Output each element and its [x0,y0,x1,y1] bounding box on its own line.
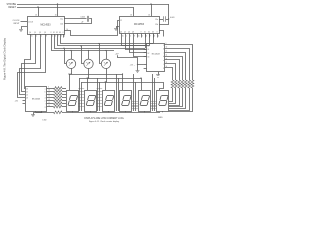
wire BCD U1 to U3 [18,38,46,98]
wire BCD U2 to U4 [126,38,147,50]
wire DS rail Q2 (y45.9) [58,38,150,46]
wire DS4 backplane stub [125,111,127,112]
display DS3 box [103,91,115,112]
wire segment bus tick [150,101,156,103]
svg-text:Q1: Q1 [124,32,126,34]
ground below U4 [156,74,160,76]
pin U2 bottom 9 [133,34,135,38]
wire RESET to U1 pin 13 [38,7,40,16]
pin U2 bottom 11 [137,34,139,38]
wire gap vertical [118,78,120,111]
wire segment bus tick [150,106,156,108]
svg-text:13: 13 [130,14,132,16]
wire collector Q1 [71,51,73,60]
svg-text:14: 14 [67,29,69,31]
svg-text:Q2: Q2 [128,32,130,34]
svg-text:Q2: Q2 [39,32,41,34]
svg-text:13: 13 [48,99,50,101]
ground at U2 pin 11 [114,28,118,30]
wire segment bus tick [78,103,84,105]
wire digit common drop [141,78,143,90]
wire DS5 backplane stub [144,111,146,112]
wire segment bus tick [132,103,138,105]
wire segment bus tick [132,108,138,110]
pin U2 bottom 4 [157,34,159,38]
wire base drop Q1 [65,48,67,63]
svg-text:D2: D2 [148,32,150,34]
wire collector Q2 [88,51,90,60]
wire gap vertical [116,74,118,111]
wire BCD U1 to U3 [22,38,36,92]
svg-text:DISPLAYS ARE LOW CURRENT LCDs: DISPLAYS ARE LOW CURRENT LCDs [84,117,124,120]
svg-text:V: V [141,32,142,34]
display DS4 box [120,91,132,112]
svg-text:D3: D3 [59,32,61,34]
resistor R5 [47,100,54,102]
resistor R3 [47,94,54,96]
wire DS1 backplane stub [72,111,74,112]
wire DS rail Q3 (y43.5) [61,38,154,44]
svg-text:D3: D3 [148,56,150,58]
wire base drop Q2 [82,46,84,64]
resistor R2 [47,91,54,93]
counter U2 MC14553 [120,17,160,34]
pin U1 bottom 4 [63,34,65,38]
svg-text:Q0: Q0 [120,32,122,34]
wire BCD U2 to U4 [122,38,147,46]
pin U1 bottom 15 [30,34,32,38]
capacitor C2 wiring [159,19,163,21]
wire U2 pin 11 to ground [117,27,120,29]
wire gap vertical [81,82,83,111]
U3 left pin stubs [23,100,26,102]
pin U2 bottom 2 [129,34,131,38]
pin U1 bottom 2 [40,34,42,38]
resistor R10 [188,80,191,88]
svg-text:D3: D3 [152,32,154,34]
wire segment bus tick [97,100,103,102]
capacitor C2 plates [163,16,165,21]
wire segment bus tick [78,106,84,108]
pin U2 bottom 1 [125,34,127,38]
resistor R4 [47,97,54,99]
svg-text:Q0: Q0 [29,32,31,34]
pin U2 bottom 6 [145,34,147,38]
wire gap vertical [154,78,156,111]
wire U1 overflow pin 14 to U2 clock [64,21,119,36]
wire backplane bus [36,112,54,114]
svg-text:14: 14 [48,105,50,107]
resistor R6 [47,103,54,105]
wire segment bus tick [97,103,103,105]
wire segment bus tick [78,91,84,93]
display DS1 digit 8 [71,95,78,97]
svg-text:C1a: C1a [155,19,158,21]
svg-text:D0: D0 [148,46,150,48]
wire STROBE to U2 pin 10 [151,4,153,16]
svg-text:µF: µF [82,22,84,24]
wire U3 phase pin to backplane bus [41,111,43,112]
svg-text:O: O [156,32,157,34]
svg-text:12: 12 [48,96,50,98]
wire segment bus tick [132,106,138,108]
ground at U4 Vdd bypass [136,70,140,72]
display DS6 box [157,91,169,112]
wire segment bus tick [150,103,156,105]
display DS2 box [85,91,97,112]
wire DS3 backplane stub [108,111,110,112]
wire common rail C [82,82,164,84]
wire ground branch U3 [34,113,42,115]
wire STROBE line [17,4,169,6]
wire segment bus tick [97,97,103,99]
svg-text:10: 10 [148,14,150,16]
wire emitter Q1 [71,69,73,75]
ground below U3 [31,114,35,116]
wire gap vertical [79,78,81,111]
wire segment drop 4 [169,88,183,107]
wire gap vertical [152,74,154,111]
svg-text:+5V →: +5V → [130,65,136,67]
wire segment bus tick [97,91,103,93]
display DS4 digit 8 [124,95,131,97]
resistor R14 [174,80,177,88]
wire gap vertical [97,78,99,111]
svg-text:O: O [62,32,63,34]
wire segment bus tick [78,97,84,99]
svg-text:C1b: C1b [155,24,158,26]
display DS2 digit 8 [89,95,96,97]
resistor R11 [184,80,187,88]
wire segment drop 6 [169,88,176,104]
wire segment bus tick [150,108,156,110]
wire U2 DS pin drops [145,34,147,49]
svg-text:STROBE: STROBE [7,4,17,6]
ground at U1 pin 11 [19,29,23,31]
wire STROBE drop to C2 node [168,4,170,19]
svg-text:15: 15 [122,36,124,38]
svg-text:INPUT: INPUT [14,23,21,25]
pin U2 bottom 5 [141,34,143,38]
svg-text:MC14553: MC14553 [41,24,52,26]
pin U1 bottom 5 [51,34,53,38]
svg-text:13: 13 [35,14,37,16]
decoder U3 MC14543 [26,87,47,112]
svg-text:0.001: 0.001 [170,17,175,19]
svg-text:+5V: +5V [115,53,119,55]
wire DS rail Q1 (y48.3) [55,38,146,49]
wire U4 segment 1 [165,45,193,81]
wire U4 segment 5 [165,60,180,81]
svg-text:D2: D2 [56,32,58,34]
resistor R13 [178,80,181,88]
wire segment bus tick [78,100,84,102]
wire segment drop 3 [169,88,186,109]
wire digit common drop DS6 [160,82,164,90]
wire U2 overflow stub [159,31,164,37]
wire BCD U2 to U4 [134,38,147,57]
wire segment bus tick [150,105,156,107]
wire segment bus tick [97,88,103,90]
pin U1 bottom 7 [57,34,59,38]
wire collector Q3 [106,51,108,60]
svg-text:MC14543: MC14543 [32,98,40,100]
pin U1 bottom 9 [45,34,47,38]
svg-text:RESET: RESET [8,7,16,9]
resistor R7 [47,106,54,108]
wire segment drop 1 [169,88,193,112]
svg-text:15: 15 [31,36,33,38]
svg-text:MC14543: MC14543 [152,53,160,55]
wire U4 segment 2 [165,49,190,81]
wire gap vertical [99,82,101,111]
svg-text:Q1: Q1 [34,32,36,34]
wire segment drop 2 [169,88,190,111]
svg-text:Figure 4-8. The Digital Clock: Figure 4-8. The Digital Clock Display [3,37,7,80]
wire gap vertical [135,82,137,111]
wire DS6 backplane stub [162,111,164,112]
svg-text:D1: D1 [144,32,146,34]
svg-text:MC14553: MC14553 [134,24,145,26]
display DS6 digit 8 [161,95,168,97]
wire STROBE to U1 pin 10 [57,4,59,16]
svg-text:D2: D2 [148,53,150,55]
wire segment bus tick [97,94,103,96]
resistor R8 backplane [54,111,63,114]
capacitor C1 loop to C1B [64,19,92,24]
wire digit common drop [105,82,107,90]
wire segment bus tick [78,88,84,90]
svg-text:Q3: Q3 [132,32,134,34]
capacitor C1 wiring [64,18,87,20]
display DS1 box [67,91,79,112]
svg-text:10: 10 [55,14,57,16]
counter U1 MC14553 [28,17,65,35]
svg-text:0.001: 0.001 [81,17,86,19]
svg-text:11: 11 [138,36,140,38]
display DS5 digit 8 [143,95,150,97]
svg-text:12 CLK: 12 CLK [28,21,33,23]
transistor Q1 [66,59,75,68]
wire segment bus tick [132,105,138,107]
capacitor C1 plates [87,16,89,22]
transistor Q3 [101,59,110,68]
wire U4 segment 4 [165,57,183,81]
resistor R12 [181,80,184,88]
wire BCD U1 to U3 [20,38,41,95]
wire clock input to U1 pin 12 [21,21,28,23]
U4 left pin stubs [144,45,147,47]
resistor R1 [47,88,54,90]
capacitor C2 loop to C1B [159,20,169,25]
svg-text:D3: D3 [26,97,28,99]
resistor R9 [191,80,194,88]
decoder U4 MC14543 [147,44,165,72]
wire base drop Q3 [100,44,102,64]
svg-text:D0: D0 [26,88,28,90]
node C2/STROBE junction [168,18,169,19]
pin U1 bottom 3 [60,34,62,38]
svg-text:Q3: Q3 [44,32,46,34]
wire digit common drop [122,74,124,90]
wire segment bus tick [97,106,103,108]
wire U4 Vdd node to ground [137,65,139,71]
wire RESET to U2 pin 13 [133,7,135,16]
svg-text:10: 10 [48,90,50,92]
display DS5 box [139,91,151,112]
svg-text:15: 15 [48,102,50,104]
svg-text:MSD: MSD [158,117,163,119]
display DS3 digit 8 [107,95,114,97]
wire U1 pin 11 to ground [22,27,28,30]
wire common rail B [80,78,142,80]
wire U4 segment 6 [165,64,176,81]
wire VDD rail (y50.5) [52,38,115,51]
resistor R15 [171,80,174,88]
wire RESET line [17,7,133,9]
wire DS2 backplane stub [90,111,92,112]
wire common rail A [69,74,123,76]
pin U1 bottom 1 [35,34,37,38]
svg-text:LSD: LSD [43,119,47,121]
svg-text:D2: D2 [26,94,28,96]
node U4 Vdd junction [137,64,138,65]
wire U4 segment 7 [165,68,173,81]
pin U1 bottom 6 [54,34,56,38]
wire BCD U1 to U3 [25,38,31,89]
svg-text:12: 12 [120,20,122,22]
pin U2 bottom 15 [121,34,123,38]
wire digit common drop [87,78,89,90]
wire U4 bottom pin to ground [158,72,160,75]
wire BCD U2 to U4 [130,38,147,53]
wire U4 segment 3 [165,53,186,81]
wire segment drop 7 [169,88,173,102]
wire emitter Q2 [88,69,90,79]
svg-text:Figure 4-11. Clock counter dis: Figure 4-11. Clock counter display [89,120,119,123]
svg-text:D1: D1 [53,32,55,34]
wire segment bus tick [132,101,138,103]
wire +5V feed to U4 [118,55,144,64]
svg-text:C1a: C1a [60,19,63,21]
wire segment bus tick [78,94,84,96]
svg-text:C1b: C1b [60,24,63,26]
wire gap vertical [133,74,135,111]
pin U2 bottom 7 [149,34,151,38]
wire emitter Q3 [106,69,108,83]
wire segment drop 5 [169,88,180,106]
pin U2 bottom 3 [153,34,155,38]
transistor Q2 [84,59,93,68]
svg-text:V: V [51,32,52,34]
svg-text:D1: D1 [148,49,150,51]
svg-text:D1: D1 [26,91,28,93]
wire digit common drop [69,74,71,90]
